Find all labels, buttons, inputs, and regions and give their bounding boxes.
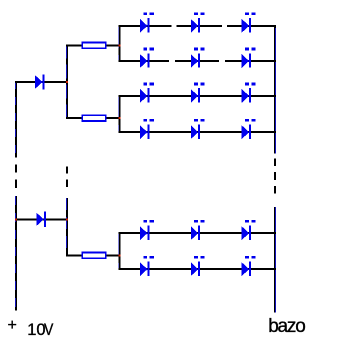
wire resistor R3 branch [66,254,120,256]
junction node D2/mid rail [66,218,68,220]
wire row2 (with series-continuation gaps) [118,60,276,62]
wire diode D1 branch [15,81,68,83]
label bazo (base terminal) [268,316,304,338]
LED row3 #2 [191,83,205,103]
wire LED group 2 left rail [118,95,121,133]
LED row4 #2 [191,119,205,139]
LED row1 #1 [140,12,154,32]
LED row3 #3 [242,83,256,103]
resistor R2 [82,115,106,121]
LED row2 #3 [242,48,256,68]
LED row1 #3 [242,12,256,32]
junction node D2/left rail [15,218,17,220]
wire row4 [118,131,276,133]
LED row1 #2 [191,12,205,32]
junction node R3/LED rail [118,254,120,256]
diode D1 [35,74,44,89]
wire diode D2 branch [15,218,68,220]
resistor R3 [82,252,106,258]
junction node R1/LED rail [118,44,120,46]
LED row2 #2 [191,48,205,68]
wire row1 (with series-continuation gaps) [118,25,276,27]
LED row2 #1 [140,48,154,68]
wire right rail vertical (bazo rail) [274,25,277,313]
LED row3 #1 [140,83,154,103]
LED row5 #1 [140,220,154,240]
LED row6 #1 [140,256,154,276]
wire row6 [118,268,276,270]
wire LED group 1 left rail [118,25,121,62]
wire resistor R1 branch [66,44,120,46]
LED row4 #3 [242,119,256,139]
diode D2 [36,212,45,227]
resistor R1 [82,42,106,48]
wire left rail vertical (+10V rail) [15,81,18,311]
LED row5 #2 [191,220,205,240]
junction node R2/LED rail [118,117,120,119]
wire mid rail vertical [66,44,69,256]
wire LED group 3 left rail [118,232,121,270]
label +10V supply [8,317,17,335]
LED row5 #3 [242,220,256,240]
LED row6 #3 [242,256,256,276]
wire resistor R2 branch [66,117,120,119]
wire row3 [118,95,276,97]
junction node D1/mid rail [66,81,68,83]
LED row6 #2 [191,256,205,276]
wire row5 [118,232,276,234]
LED row4 #1 [140,119,154,139]
